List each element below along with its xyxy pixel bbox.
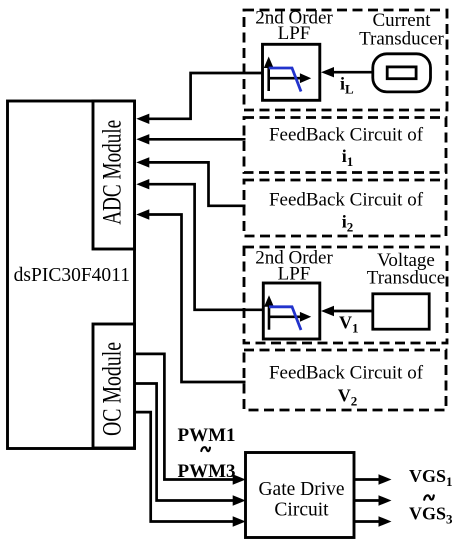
svg-text:Transduce: Transduce (367, 268, 445, 289)
LPF2 filter icon (263, 283, 320, 339)
dashed box: feedback circuit i1 (244, 118, 446, 173)
label VGS1 ~ VGS3 (409, 466, 453, 527)
ADC Module block (93, 101, 135, 249)
dashed group box: 2nd order LPF + voltage transducer (244, 247, 447, 343)
svg-text:Gate Drive: Gate Drive (258, 479, 344, 500)
svg-text:ADC Module: ADC Module (98, 120, 127, 225)
svg-text:dsPIC30F4011: dsPIC30F4011 (14, 265, 130, 286)
OC Module block (93, 324, 135, 448)
wire: LPF2 output to ADC arrow 4 (136, 179, 263, 310)
svg-text:LPF: LPF (278, 264, 311, 285)
dashed box: feedback circuit i2 (244, 180, 446, 236)
output arrow VGS3 (354, 516, 392, 526)
svg-text:FeedBack Circuit of: FeedBack Circuit of (269, 190, 424, 211)
svg-text:Transducer: Transducer (359, 29, 444, 50)
svg-text:PWM1: PWM1 (178, 425, 236, 446)
wire: voltage transducer to LPF2 (V1) (321, 306, 373, 316)
output arrow middle (354, 495, 392, 505)
svg-text:VGS1: VGS1 (409, 466, 453, 489)
current transducer icon (373, 54, 431, 92)
wire: feedback i2 to ADC arrow 3 (136, 157, 245, 206)
wire: current transducer to LPF1 (iL) (321, 67, 373, 77)
microcontroller box U1 dsPIC30F4011 (8, 101, 135, 449)
wire: feedback V2 to ADC arrow 5 (136, 209, 245, 382)
label PWM1 ~ PWM3 (178, 425, 236, 482)
dashed box: feedback circuit V2 (244, 350, 446, 410)
svg-text:LPF: LPF (278, 23, 311, 44)
wire: LPF1 output to ADC arrow 1 (136, 73, 262, 124)
svg-text:Circuit: Circuit (274, 500, 329, 521)
wire: OC out C to gate drive in 3 (135, 412, 246, 527)
svg-text:FeedBack Circuit of: FeedBack Circuit of (269, 125, 424, 146)
svg-text:FeedBack Circuit of: FeedBack Circuit of (269, 363, 424, 384)
dashed group box: 2nd order LPF + current transducer (244, 8, 447, 111)
gate drive circuit box (246, 453, 355, 538)
output arrow VGS1 (354, 474, 392, 484)
LPF1 filter icon (263, 44, 320, 100)
wire: feedback i1 to ADC arrow 2 (136, 134, 245, 144)
svg-text:PWM3: PWM3 (178, 461, 236, 482)
svg-text:OC Module: OC Module (98, 342, 127, 436)
voltage transducer box (373, 294, 429, 329)
wire: OC out A to gate drive in 1 (135, 354, 246, 485)
wire: OC out B to gate drive in 2 (135, 384, 246, 506)
